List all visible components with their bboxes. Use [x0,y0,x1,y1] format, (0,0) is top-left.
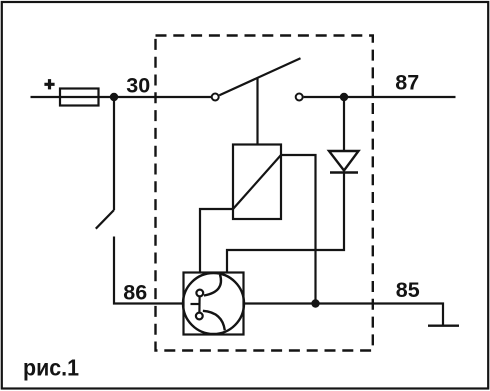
relay coil K1 (rectangle) [233,145,281,220]
svg-text:30: 30 [126,74,150,98]
wire from diode cathode down and left to socket pin [227,173,344,273]
svg-text:87: 87 [395,71,419,95]
wire from right contact to terminal 87 [304,96,456,98]
wire from blade to relay coil top [256,79,258,145]
svg-text:86: 86 [123,281,147,305]
relay contact fixed terminal (left, open circle) [212,94,219,101]
socket circle [183,273,244,334]
wire from switch S1 to terminal 86 [114,237,184,304]
socket pin side tick [191,303,200,305]
diode VD1 triangle [329,151,359,171]
plus polarity mark [44,79,54,89]
svg-text:рис.1: рис.1 [23,355,79,381]
socket pin lower (small circle) [196,313,203,320]
socket pin connecting bar [198,296,200,312]
relay contact fixed terminal (right, open circle) [296,94,303,101]
wire from coil right down to terminal 85 wire [281,155,316,304]
wire from coil left to socket pin [200,209,233,273]
wire from socket to terminal 85 and ground [244,304,444,326]
diode VD1 cathode bar [330,171,358,173]
node at terminal 30 branch [110,93,118,101]
fuse FU1 [60,89,99,106]
wire from battery to fuse and terminal 30 [31,96,212,98]
socket lower arc [203,311,225,331]
node on 85 wire [311,299,319,307]
wire from node to diode VD1 anode [343,97,345,151]
svg-text:85: 85 [396,278,420,302]
relay boundary (dashed box) [156,36,373,351]
relay coil diagonal [233,155,281,209]
socket pin upper (small circle) [196,290,203,297]
socket / load symbol body [184,273,244,335]
ground symbol [428,325,459,327]
switch S1 blade (open) [96,210,114,229]
relay contact movable blade [219,58,300,95]
node on 87 wire (diode branch) [340,93,348,101]
wire down from node 30 to switch S1 [113,97,115,210]
socket upper arc [204,275,221,296]
